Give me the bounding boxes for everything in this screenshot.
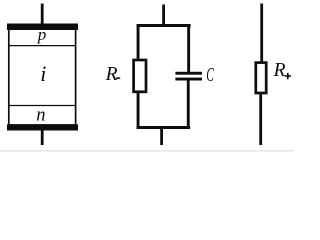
junction line i/n [8, 105, 76, 107]
wire: bottom lead of R+ branch [259, 94, 262, 145]
wire: bottom lead of RC equivalent circuit [160, 129, 163, 145]
svg-text:R: R [105, 64, 118, 85]
svg-text:i: i [40, 61, 46, 86]
svg-text:p: p [37, 25, 47, 44]
capacitor C bottom plate [175, 78, 202, 81]
wire: right branch upper segment [187, 24, 190, 73]
wire: left branch lower segment [137, 93, 140, 129]
junction line p/i [8, 45, 76, 47]
wire: top lead of RC equivalent circuit [162, 5, 165, 26]
wire: right branch lower segment [187, 79, 190, 129]
PIN diode body outline [9, 29, 76, 125]
resistor R+ body [256, 63, 266, 93]
svg-text:R: R [273, 60, 286, 81]
svg-text:n: n [36, 106, 45, 126]
svg-text:C: C [206, 65, 214, 86]
faint page rule at bottom [0, 150, 294, 152]
wire: left branch upper segment [137, 24, 140, 60]
electrode: bottom metal contact bar of PIN structure [7, 124, 78, 130]
wire: top lead of PIN structure [41, 4, 44, 25]
wire: top lead of R+ branch [260, 4, 263, 63]
electrode: top metal contact bar of PIN structure [7, 24, 78, 31]
capacitor C top plate [175, 72, 202, 75]
wire: bottom rail of RC loop [137, 126, 191, 129]
resistor R- body [134, 60, 146, 92]
wire: bottom lead of PIN structure [41, 131, 44, 146]
wire: top rail of RC loop [137, 24, 191, 27]
